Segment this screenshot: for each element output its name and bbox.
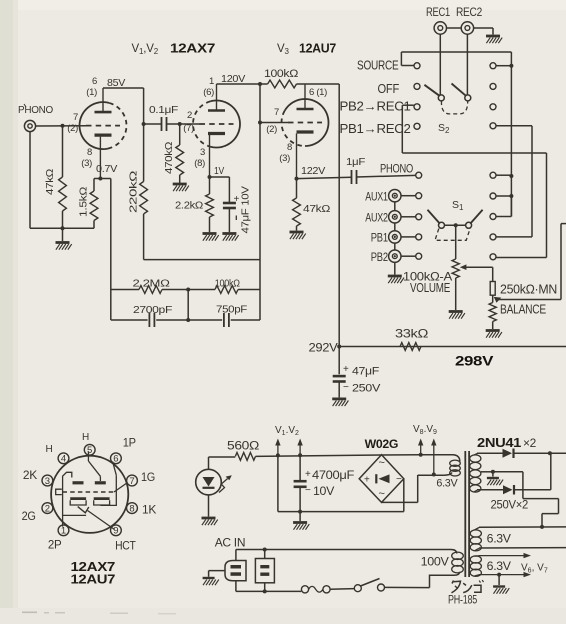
svg-text:V6, V7: V6, V7 bbox=[521, 563, 548, 575]
svg-text:85V: 85V bbox=[107, 77, 125, 89]
svg-text:SOURCE: SOURCE bbox=[357, 58, 399, 73]
svg-text:47kΩ: 47kΩ bbox=[303, 203, 330, 215]
svg-text:PB1→REC2: PB1→REC2 bbox=[340, 122, 411, 136]
svg-text:250V×2: 250V×2 bbox=[491, 500, 529, 512]
svg-text:(7): (7) bbox=[183, 123, 194, 134]
svg-text:+: + bbox=[234, 194, 240, 205]
svg-text:AC IN: AC IN bbox=[215, 536, 246, 550]
svg-text:8: 8 bbox=[129, 504, 134, 515]
svg-text:470kΩ: 470kΩ bbox=[163, 142, 175, 174]
svg-text:7: 7 bbox=[129, 476, 134, 487]
svg-text:12AU7: 12AU7 bbox=[299, 41, 336, 56]
svg-text:AUX2: AUX2 bbox=[365, 210, 388, 224]
svg-text:2NU41: 2NU41 bbox=[477, 436, 521, 450]
svg-text:6.3V: 6.3V bbox=[487, 561, 512, 573]
svg-text:100kΩ: 100kΩ bbox=[264, 68, 298, 80]
svg-text:12AU7: 12AU7 bbox=[71, 573, 116, 587]
svg-text:1V: 1V bbox=[214, 165, 224, 177]
svg-text:1: 1 bbox=[61, 526, 66, 537]
svg-text:2P: 2P bbox=[48, 540, 62, 552]
svg-text:(2): (2) bbox=[266, 124, 277, 135]
svg-text:750pF: 750pF bbox=[216, 304, 247, 316]
svg-text:AUX1: AUX1 bbox=[365, 189, 388, 203]
svg-text:7: 7 bbox=[274, 107, 279, 118]
svg-text:292V: 292V bbox=[309, 343, 339, 355]
svg-text:1μF: 1μF bbox=[346, 156, 365, 168]
svg-text:4700μF: 4700μF bbox=[312, 470, 354, 482]
svg-text:100kΩ: 100kΩ bbox=[215, 278, 240, 290]
svg-text:(2): (2) bbox=[67, 123, 78, 134]
svg-text:3: 3 bbox=[45, 476, 50, 487]
svg-text:250kΩ·MN: 250kΩ·MN bbox=[500, 282, 557, 297]
svg-text:S: S bbox=[438, 122, 445, 134]
svg-text:−: − bbox=[396, 474, 402, 485]
svg-text:2.2kΩ: 2.2kΩ bbox=[175, 200, 203, 212]
svg-text:−: − bbox=[343, 382, 349, 393]
svg-text:2: 2 bbox=[187, 110, 192, 121]
svg-text:+: + bbox=[364, 475, 370, 486]
svg-text:2: 2 bbox=[445, 126, 450, 135]
svg-text:PH-185: PH-185 bbox=[448, 595, 477, 607]
svg-text:1G: 1G bbox=[141, 472, 155, 484]
svg-text:S: S bbox=[452, 199, 459, 211]
svg-text:+: + bbox=[343, 364, 349, 375]
svg-text:10V: 10V bbox=[313, 486, 335, 498]
svg-text:BALANCE: BALANCE bbox=[500, 302, 546, 317]
svg-text:7: 7 bbox=[73, 112, 78, 123]
svg-text:W02G: W02G bbox=[365, 439, 399, 451]
svg-text:PHONO: PHONO bbox=[18, 104, 53, 116]
svg-text:2G: 2G bbox=[22, 511, 36, 523]
svg-text:298V: 298V bbox=[455, 354, 493, 369]
svg-text:+: + bbox=[305, 469, 311, 480]
svg-text:560Ω: 560Ω bbox=[227, 441, 260, 453]
svg-text:8: 8 bbox=[287, 142, 292, 153]
svg-text:250V: 250V bbox=[352, 383, 381, 395]
svg-text:6.3V: 6.3V bbox=[487, 534, 512, 546]
svg-text:OFF: OFF bbox=[378, 81, 400, 96]
svg-text:HCT: HCT bbox=[115, 541, 136, 553]
svg-text:PB2: PB2 bbox=[371, 250, 388, 264]
svg-text:3: 3 bbox=[200, 147, 205, 158]
svg-text:1: 1 bbox=[459, 203, 464, 212]
svg-text:2700pF: 2700pF bbox=[133, 304, 172, 316]
svg-text:120V: 120V bbox=[221, 73, 245, 85]
svg-text:220kΩ: 220kΩ bbox=[128, 170, 140, 213]
svg-text:6.3V: 6.3V bbox=[436, 478, 458, 490]
svg-text:100V: 100V bbox=[421, 555, 449, 569]
svg-text:VOLUME: VOLUME bbox=[410, 281, 450, 295]
svg-text:9: 9 bbox=[113, 526, 118, 537]
svg-text:12AX7: 12AX7 bbox=[170, 41, 215, 56]
svg-text:−: − bbox=[305, 485, 311, 496]
svg-text:PB1: PB1 bbox=[371, 231, 388, 245]
svg-text:×2: ×2 bbox=[523, 438, 536, 450]
svg-text:REC1: REC1 bbox=[426, 7, 450, 19]
svg-text:47μF: 47μF bbox=[352, 366, 380, 378]
svg-text:47kΩ: 47kΩ bbox=[44, 169, 56, 195]
svg-text:H: H bbox=[82, 432, 89, 443]
svg-text:6: 6 bbox=[92, 76, 97, 87]
svg-text:1: 1 bbox=[209, 76, 214, 87]
svg-text:8: 8 bbox=[87, 147, 92, 158]
svg-text:6: 6 bbox=[113, 454, 118, 465]
svg-text:PHONO: PHONO bbox=[380, 162, 413, 176]
svg-text:REC2: REC2 bbox=[456, 7, 482, 19]
svg-text:6 (1): 6 (1) bbox=[309, 87, 327, 98]
svg-text:4: 4 bbox=[61, 454, 66, 465]
svg-text:~: ~ bbox=[378, 488, 384, 500]
svg-text:47μF 10V: 47μF 10V bbox=[241, 186, 252, 234]
svg-text:2.2MΩ: 2.2MΩ bbox=[133, 278, 171, 290]
svg-text:(8): (8) bbox=[194, 158, 205, 169]
svg-text:(1): (1) bbox=[86, 87, 97, 98]
svg-text:H: H bbox=[46, 444, 53, 455]
svg-text:(6): (6) bbox=[203, 87, 214, 98]
svg-text:~: ~ bbox=[378, 457, 384, 469]
svg-text:PB2→REC1: PB2→REC1 bbox=[340, 100, 411, 114]
svg-text:1P: 1P bbox=[123, 438, 137, 450]
svg-text:122V: 122V bbox=[301, 165, 325, 177]
svg-text:33kΩ: 33kΩ bbox=[395, 327, 428, 341]
svg-text:1K: 1K bbox=[142, 505, 157, 517]
svg-text:2: 2 bbox=[45, 504, 50, 515]
svg-text:2K: 2K bbox=[23, 470, 38, 482]
svg-text:1.5kΩ: 1.5kΩ bbox=[78, 186, 90, 217]
svg-text:0.7V: 0.7V bbox=[96, 163, 117, 175]
svg-text:(3): (3) bbox=[279, 153, 290, 164]
svg-text:0.1μF: 0.1μF bbox=[149, 104, 178, 116]
svg-text:(3): (3) bbox=[81, 158, 92, 169]
